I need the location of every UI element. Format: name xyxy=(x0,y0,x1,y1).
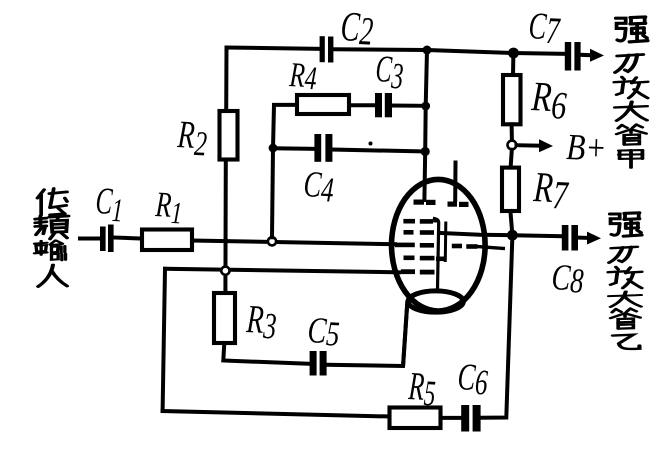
svg-text:C7: C7 xyxy=(527,6,562,53)
capacitor C1 xyxy=(100,225,114,253)
node B+ (open) xyxy=(508,141,517,150)
svg-text:R4: R4 xyxy=(288,55,318,97)
text right col2 大 xyxy=(609,291,641,306)
svg-text:R2: R2 xyxy=(175,114,208,164)
speck xyxy=(369,142,373,146)
wire C2 to C7 junction xyxy=(333,49,565,54)
tube grid dashes row5 xyxy=(401,269,435,274)
wire tube plate out to C8 xyxy=(441,233,562,236)
resistor R3 xyxy=(214,293,235,343)
svg-text:R6: R6 xyxy=(529,73,568,128)
tube cathode center line xyxy=(435,219,439,290)
text right col2 强 xyxy=(610,213,642,236)
arrow B+ xyxy=(517,143,542,148)
svg-text:C2: C2 xyxy=(339,3,374,54)
tube top lead 2 xyxy=(453,163,457,201)
svg-text:C6: C6 xyxy=(456,357,489,403)
label C4 xyxy=(302,163,335,210)
tube anode bar 1 xyxy=(414,200,436,206)
label C6 xyxy=(456,357,489,403)
junction dot plate node xyxy=(507,230,518,241)
svg-text:R1: R1 xyxy=(154,184,184,230)
capacitor C4 xyxy=(314,134,332,162)
label C1 xyxy=(94,179,124,230)
label C3 xyxy=(374,48,405,97)
wire C2 junction down to tube plate lead xyxy=(424,50,427,200)
tube base oval xyxy=(408,291,463,312)
label R3 xyxy=(245,297,278,346)
text right col2 放 xyxy=(608,267,641,288)
text right col2 力 xyxy=(609,247,637,263)
wire grid2 (second wire) xyxy=(165,269,399,273)
text right col2 乙 xyxy=(613,335,640,349)
wire C4 to vertical xyxy=(332,150,425,152)
node B (open) on grid2 wire xyxy=(221,267,229,275)
wire B+ node to R7 xyxy=(511,150,512,168)
resistor R1 xyxy=(142,230,192,251)
text input chinese 頻 xyxy=(35,216,68,239)
wire C4 row xyxy=(273,146,314,151)
resistor R7 xyxy=(502,168,519,211)
wire R7 to plate node xyxy=(510,211,512,235)
resistor R4 xyxy=(297,95,349,114)
label R4 xyxy=(288,55,318,97)
wire C6 up right side to plate node xyxy=(481,235,513,418)
tube right dashes xyxy=(452,244,478,249)
label B+ xyxy=(566,128,607,169)
wire C5 to tube cathode lead xyxy=(327,303,408,367)
wire C3 to R4 xyxy=(349,103,375,107)
junction dot C3 xyxy=(421,102,430,111)
label R6 xyxy=(529,73,568,128)
label R5 xyxy=(407,364,437,413)
svg-text:C8: C8 xyxy=(550,258,585,301)
label R2 xyxy=(175,114,208,164)
tube cathode lead to C5 xyxy=(403,303,407,365)
wire R4 left corner down xyxy=(273,105,297,148)
tube anode bar 2 xyxy=(448,202,469,208)
wire R2 to R3 xyxy=(223,160,227,294)
svg-text:C3: C3 xyxy=(374,48,405,97)
tube stub wire right xyxy=(478,247,504,249)
text right col1 管 xyxy=(617,124,647,144)
tube grid row1 connector xyxy=(433,220,439,223)
label C8 xyxy=(550,258,585,301)
wire bottom long xyxy=(163,411,390,417)
resistor R6 xyxy=(503,75,521,124)
wire C1 to R1 xyxy=(114,238,143,239)
tube grid dashes row4 xyxy=(404,256,445,262)
junction dot C4 xyxy=(421,147,430,156)
junction node C7/R6 xyxy=(508,48,519,59)
wire C3 row xyxy=(392,104,426,108)
wire R3 down and right to C5 xyxy=(223,343,309,364)
wire input stub xyxy=(80,237,100,241)
svg-text:R7: R7 xyxy=(531,163,570,217)
text right col1 放 xyxy=(614,77,647,98)
svg-text:R3: R3 xyxy=(245,297,278,346)
arrow at C8 xyxy=(578,236,589,240)
text right col2 管 xyxy=(611,308,641,328)
wire R5 to C6 xyxy=(441,416,462,420)
wire node A up to C4 junction xyxy=(272,148,273,237)
svg-text:C1: C1 xyxy=(94,179,124,230)
label C7 xyxy=(527,6,562,53)
resistor R2 xyxy=(220,111,238,160)
wire top from R2 corner to C2 xyxy=(227,48,320,49)
capacitor C3 xyxy=(375,93,392,117)
text input chinese 輸 xyxy=(34,240,65,260)
label C2 xyxy=(339,3,374,54)
capacitor C2 xyxy=(320,36,334,62)
text input chinese 低 xyxy=(37,189,67,215)
wire R2 vertical branch xyxy=(224,48,228,112)
capacitor C7 xyxy=(565,42,581,71)
svg-text:C4: C4 xyxy=(302,163,335,210)
label R1 xyxy=(154,184,184,230)
tube inner line 2 xyxy=(444,223,448,261)
label R7 xyxy=(531,163,570,217)
arrow at C7 xyxy=(581,53,592,58)
wire R6 branch xyxy=(511,53,515,75)
svg-text:R5: R5 xyxy=(407,364,437,413)
text right col1 力 xyxy=(615,55,643,73)
label C5 xyxy=(306,311,340,354)
text right col1 大 xyxy=(615,102,647,121)
tube grid dashes row3 xyxy=(395,243,434,248)
resistor R5 xyxy=(390,408,441,429)
junction dot R4/C4 xyxy=(269,144,278,153)
svg-text:B+: B+ xyxy=(566,128,607,169)
svg-text:C5: C5 xyxy=(306,311,340,354)
text input chinese 入 xyxy=(38,265,67,287)
capacitor C5 xyxy=(310,351,327,376)
wire R1 to tube grid xyxy=(192,241,395,245)
tube grid dashes row2 xyxy=(404,230,435,235)
tube grid dashes row1 xyxy=(403,219,433,224)
text right col1 强 xyxy=(616,17,648,42)
wire R6 to B+ node xyxy=(510,124,514,140)
text right col1 甲 xyxy=(619,150,643,168)
junction node C2/vertical xyxy=(423,46,432,55)
wire left vertical down xyxy=(163,269,165,411)
vacuum tube V1 envelope xyxy=(392,179,486,311)
capacitor C8 xyxy=(562,225,578,251)
node A (open) on main line xyxy=(268,237,276,245)
capacitor C6 xyxy=(461,405,480,432)
